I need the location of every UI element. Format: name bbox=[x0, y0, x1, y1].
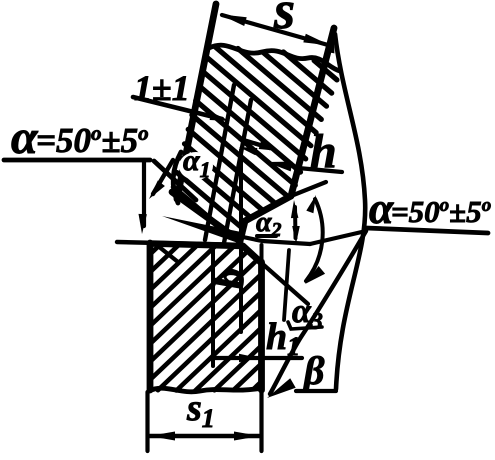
svg-text:1±1: 1±1 bbox=[134, 68, 190, 108]
svg-text:s: s bbox=[273, 0, 295, 40]
svg-text:h: h bbox=[310, 125, 337, 178]
svg-text:b: b bbox=[207, 268, 253, 289]
svg-text:α: α bbox=[11, 111, 39, 164]
svg-text:β: β bbox=[302, 348, 325, 393]
